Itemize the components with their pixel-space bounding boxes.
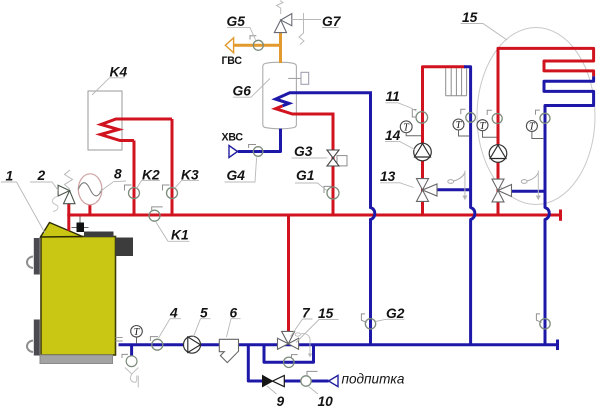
boiler drain valve: [126, 356, 137, 367]
valve B return: [540, 113, 550, 123]
three-way valve 7: [278, 338, 289, 349]
svg-text:13: 13: [380, 169, 396, 184]
valve 11: [416, 112, 428, 124]
svg-text:2: 2: [37, 168, 46, 183]
valve G2: [365, 319, 375, 329]
DHW orange line: [234, 44, 281, 47]
leader G3: [292, 157, 328, 159]
pump B: [489, 145, 507, 163]
leader 5: [194, 319, 211, 337]
leader G5: [227, 28, 256, 40]
safety valve spring: [65, 170, 73, 189]
valve 13 sensor: [448, 180, 454, 184]
make-up arrow: [329, 375, 338, 386]
svg-text:G3: G3: [294, 144, 313, 159]
valve K1: [149, 210, 160, 221]
boiler 1 body: [41, 237, 116, 356]
bypass loop: [264, 345, 314, 363]
valve B sensor: [521, 180, 527, 184]
valve 10: [301, 376, 311, 386]
valve G1: [327, 187, 339, 199]
leader 14: [385, 142, 415, 150]
orange riser tank to G7: [279, 32, 282, 63]
three-way valve B: [492, 179, 504, 190]
leader K3: [175, 181, 199, 188]
svg-text:G5: G5: [227, 14, 246, 29]
boiler top flue bar: [84, 232, 114, 238]
red supply main: [67, 214, 560, 217]
pump/valve G5: [253, 40, 263, 50]
leader G1: [295, 183, 327, 191]
boiler base: [40, 355, 113, 364]
valve G4: [253, 147, 263, 157]
boiler handle lower: [27, 341, 33, 353]
K4 coil: [101, 119, 173, 141]
svg-text:G2: G2: [386, 306, 405, 321]
svg-text:G7: G7: [322, 14, 342, 29]
valve 7 riser: [287, 215, 290, 332]
tank coil to return (blue): [276, 93, 375, 345]
safety valve 2: [64, 191, 76, 204]
thermometer B return: [526, 121, 537, 132]
K3 riser: [171, 119, 174, 215]
DHW arrow (GVS): [225, 38, 233, 53]
CW arrow (HVS): [229, 146, 238, 158]
boiler hinge bar lower: [34, 320, 40, 356]
thermometer B supply: [477, 120, 488, 131]
leader 15 top: [461, 24, 508, 41]
svg-text:11: 11: [386, 89, 400, 104]
boiler supply riser: [67, 204, 70, 231]
leader 11: [386, 103, 417, 112]
zone ellipse 15 (floor heating zone): [477, 28, 595, 205]
leader 6: [227, 319, 241, 337]
svg-text:9: 9: [277, 394, 285, 408]
leader G2: [376, 319, 405, 321]
svg-text:1: 1: [6, 169, 14, 184]
svg-text:10: 10: [318, 394, 334, 408]
svg-text:15: 15: [318, 306, 334, 321]
valve 4: [152, 339, 163, 350]
thermometer boiler: [131, 326, 143, 338]
make-up drop pipe: [248, 345, 262, 381]
svg-text:K2: K2: [142, 167, 160, 182]
svg-text:K4: K4: [110, 65, 128, 80]
leader 4: [159, 319, 182, 338]
circuit B supply riser and serpentine (red): [498, 48, 594, 215]
leader G7b: [322, 27, 339, 29]
blue return manifold: [119, 343, 558, 346]
valve 7 sensor: [295, 333, 300, 336]
leader K1: [156, 222, 190, 241]
boiler drain funnel: [125, 368, 139, 388]
check valve 9: [263, 376, 273, 387]
boiler lid: [41, 223, 83, 238]
pump 14: [414, 143, 432, 161]
svg-text:6: 6: [230, 305, 238, 320]
valve B balancing: [540, 319, 550, 329]
bypass valve: [284, 357, 294, 367]
thermometer A return: [453, 119, 464, 130]
mixing valve G7: [281, 14, 292, 26]
leader 10: [309, 387, 319, 395]
svg-text:8: 8: [114, 167, 122, 182]
G1/G3 riser to tank coil (red): [276, 106, 334, 215]
svg-text:5: 5: [200, 305, 208, 320]
leader 15 bottom: [296, 320, 339, 343]
boiler return nipple: [116, 337, 123, 339]
leader 1: [1, 182, 45, 233]
tank G6 (indirect water heater): [263, 62, 297, 129]
circuit A return pipe: [464, 67, 475, 345]
svg-text:подпитка: подпитка: [342, 372, 405, 387]
pump 5: [184, 336, 201, 353]
svg-text:ГВС: ГВС: [222, 55, 243, 67]
three-way valve 13: [417, 179, 429, 190]
boiler drain stub: [130, 345, 133, 356]
circuit A valve bridge: [436, 188, 471, 191]
svg-text:7: 7: [302, 306, 311, 321]
svg-text:15: 15: [462, 10, 478, 25]
cold water line to tank: [238, 129, 281, 152]
valve A return: [466, 113, 476, 123]
filter 6: [219, 339, 238, 362]
svg-text:14: 14: [385, 128, 401, 143]
circuit B serpentine return (blue): [544, 76, 594, 344]
make-up pipe segments: [285, 380, 302, 383]
leader K2: [137, 181, 160, 189]
circuit A supply riser: [423, 67, 466, 215]
svg-text:K1: K1: [171, 228, 189, 243]
svg-text:4: 4: [169, 305, 178, 320]
red main end cap: [559, 210, 562, 221]
valve K3: [167, 188, 178, 199]
leader 7: [291, 319, 313, 337]
leader 13: [380, 183, 414, 188]
svg-text:ХВС: ХВС: [222, 132, 244, 144]
K2 riser: [133, 141, 136, 216]
leader K4: [92, 78, 125, 95]
leader 9: [267, 386, 277, 394]
radiator: [446, 68, 467, 96]
svg-text:G1: G1: [296, 168, 314, 183]
leader 8: [100, 181, 127, 192]
svg-text:K3: K3: [181, 167, 199, 182]
blue manifold end cap: [556, 340, 559, 351]
tank G6 sensor pocket: [288, 77, 301, 79]
heat storage box K4: [88, 91, 122, 150]
valve G3 with actuator: [337, 156, 347, 166]
circuit B valve bridge: [510, 190, 545, 193]
leader G6: [233, 79, 270, 98]
svg-text:G4: G4: [227, 168, 246, 183]
thermometer A supply: [400, 121, 412, 133]
expansion tank 8: [78, 174, 102, 205]
valve K2: [129, 188, 140, 199]
valve B supply: [492, 114, 502, 124]
leader G7: [292, 19, 321, 21]
safety valve discharge squiggle: [52, 197, 58, 212]
boiler handle upper: [27, 257, 33, 269]
expansion tank stub: [88, 204, 91, 216]
leader 2: [30, 182, 58, 191]
boiler top cap: [79, 217, 81, 223]
boiler hinge bar upper: [34, 238, 40, 275]
svg-text:G6: G6: [233, 84, 252, 99]
leader G4: [225, 158, 257, 183]
boiler flue box: [116, 238, 134, 257]
